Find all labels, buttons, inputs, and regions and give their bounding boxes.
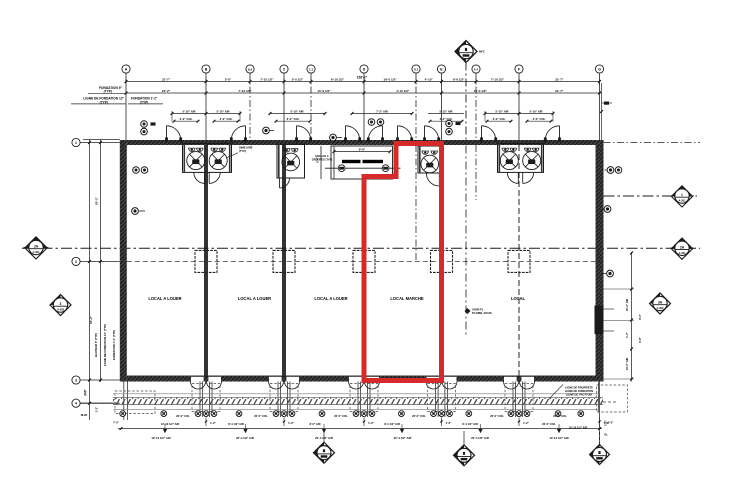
svg-text:1'-2": 1'-2": [604, 419, 608, 426]
svg-text:15'-9 1/2": 15'-9 1/2": [317, 89, 331, 93]
svg-text:12'-10 1/2" AIR: 12'-10 1/2" AIR: [161, 422, 180, 426]
svg-text:4'-10 1/2": 4'-10 1/2": [396, 89, 410, 93]
svg-text:A-301: A-301: [678, 199, 686, 203]
svg-text:A-302: A-302: [57, 308, 65, 312]
svg-text:7'-10 1/2": 7'-10 1/2": [491, 77, 505, 81]
svg-text:6'-10 1/2": 6'-10 1/2": [331, 77, 345, 81]
svg-text:5'-10" AIR: 5'-10" AIR: [290, 109, 303, 113]
svg-text:PLOMB. SOUS.: PLOMB. SOUS.: [472, 311, 493, 315]
svg-text:C: C: [283, 67, 286, 71]
svg-text:3'-2" COL: 3'-2" COL: [180, 117, 193, 121]
svg-text:ORDURES (TYP): ORDURES (TYP): [312, 157, 333, 161]
svg-text:B: B: [205, 67, 208, 71]
svg-text:LOCAL A LOUER: LOCAL A LOUER: [314, 296, 347, 301]
svg-text:3: 3: [75, 378, 77, 382]
svg-text:E.4: E.4: [474, 67, 478, 71]
svg-text:1: 1: [75, 141, 77, 145]
svg-text:20'-4 1/2" A/R: 20'-4 1/2" A/R: [236, 436, 254, 440]
svg-text:5'-0": 5'-0": [225, 77, 232, 81]
svg-text:20'-4 1/2" A/R: 20'-4 1/2" A/R: [471, 436, 489, 440]
svg-text:7'-10 1/2": 7'-10 1/2": [238, 89, 252, 93]
svg-text:9'-2": 9'-2": [638, 313, 642, 320]
svg-text:7'-2" AIR: 7'-2" AIR: [376, 109, 388, 113]
svg-text:3'-2" COL: 3'-2" COL: [493, 117, 506, 121]
svg-text:35'-2": 35'-2": [89, 315, 93, 324]
svg-text:8'-4 1/2" AIR: 8'-4 1/2" AIR: [462, 422, 478, 426]
svg-text:A-301: A-301: [678, 251, 686, 255]
svg-text:HAUTEUR 9' (TYP): HAUTEUR 9' (TYP): [94, 333, 98, 357]
svg-text:3'-2" COL: 3'-2" COL: [220, 117, 233, 121]
svg-text:D: D: [363, 67, 366, 71]
svg-text:LIGNE DE FONDATION: LIGNE DE FONDATION: [565, 389, 593, 393]
svg-text:3'-2" COL: 3'-2" COL: [533, 117, 546, 121]
svg-text:8'-4 1/2" AIR: 8'-4 1/2" AIR: [384, 422, 400, 426]
svg-text:6'-8": 6'-8": [638, 336, 642, 343]
svg-text:10'-2" AIR: 10'-2" AIR: [625, 299, 629, 312]
svg-text:20'-0" COL: 20'-0" COL: [542, 422, 556, 426]
svg-text:8'-0" AIR: 8'-0" AIR: [309, 422, 320, 426]
svg-text:FONDATION 1'-2" (TYP): FONDATION 1'-2" (TYP): [112, 330, 116, 360]
svg-text:20'-0" COL: 20'-0" COL: [412, 414, 426, 418]
svg-text:20'-0" COL: 20'-0" COL: [254, 414, 268, 418]
svg-text:LOCAL A LOUER: LOCAL A LOUER: [238, 296, 271, 301]
svg-text:2: 2: [75, 260, 77, 264]
svg-text:1'-2": 1'-2": [95, 406, 99, 412]
svg-text:(TYP): (TYP): [239, 149, 246, 153]
svg-text:31'-7": 31'-7": [555, 77, 564, 81]
svg-text:LIGNE DE PROPRIETE: LIGNE DE PROPRIETE: [565, 386, 593, 390]
svg-text:D.3: D.3: [414, 67, 419, 71]
svg-text:2A: 2A: [680, 246, 685, 250]
svg-text:NFC: NFC: [479, 50, 485, 54]
svg-text:31'-7": 31'-7": [555, 89, 564, 93]
svg-text:1'-2": 1'-2": [446, 421, 453, 425]
svg-text:20'-0" COL: 20'-0" COL: [490, 414, 504, 418]
svg-text:1'-2": 1'-2": [288, 421, 295, 425]
svg-text:1'-2": 1'-2": [625, 331, 629, 338]
svg-text:10'-2" AIR: 10'-2" AIR: [625, 358, 629, 371]
svg-text:LIGNE DE FONDATION 12" (TYP): LIGNE DE FONDATION 12" (TYP): [103, 324, 107, 366]
svg-text:20'-0" COL: 20'-0" COL: [176, 414, 190, 418]
svg-text:20'-0" COL: 20'-0" COL: [553, 414, 567, 418]
svg-text:C.3: C.3: [309, 67, 314, 71]
svg-text:2'-0": 2'-0": [84, 389, 88, 395]
svg-text:1: 1: [681, 193, 683, 197]
svg-text:20'-4 1/2" A/R: 20'-4 1/2" A/R: [394, 436, 412, 440]
svg-text:8'-4 1/2" AIR: 8'-4 1/2" AIR: [228, 422, 244, 426]
svg-text:9'-6": 9'-6": [359, 147, 366, 151]
svg-text:4'-10": 4'-10": [425, 77, 434, 81]
svg-text:5'-10" AIR: 5'-10" AIR: [216, 109, 229, 113]
svg-text:14'-10 1/2" A/R: 14'-10 1/2" A/R: [549, 436, 568, 440]
svg-text:16'-0 1/2": 16'-0 1/2": [474, 89, 488, 93]
svg-text:3: 3: [60, 302, 62, 306]
svg-text:4: 4: [75, 402, 77, 406]
svg-text:5'-10" AIR: 5'-10" AIR: [495, 109, 508, 113]
svg-text:16'-0 1/2": 16'-0 1/2": [383, 77, 397, 81]
svg-text:5'-10" AIR: 5'-10" AIR: [529, 109, 542, 113]
svg-text:7'-10 1/2": 7'-10 1/2": [260, 77, 274, 81]
svg-text:LOCAL MARCHE: LOCAL MARCHE: [390, 296, 423, 301]
svg-text:OL: OL: [604, 433, 608, 437]
svg-text:ENCLOS A: ENCLOS A: [315, 154, 328, 158]
svg-text:5'-0 1/2": 5'-0 1/2": [292, 77, 304, 81]
svg-text:A: A: [125, 67, 128, 71]
svg-text:1'-2": 1'-2": [523, 421, 530, 425]
svg-text:20'-0" COL: 20'-0" COL: [334, 414, 348, 418]
svg-text:2A: 2A: [34, 245, 39, 249]
svg-text:1'-2": 1'-2": [608, 420, 615, 424]
svg-text:3'-2" COL: 3'-2" COL: [287, 117, 300, 121]
svg-text:35'-2": 35'-2": [95, 196, 99, 205]
svg-text:1'-2": 1'-2": [210, 421, 217, 425]
svg-text:7'-2": 7'-2": [113, 421, 120, 425]
svg-text:158'-2": 158'-2": [357, 75, 368, 79]
svg-text:12'-10 1/2" A/R: 12'-10 1/2" A/R: [151, 436, 170, 440]
svg-text:24'-2": 24'-2": [162, 89, 171, 93]
svg-text:6'-6 1/2": 6'-6 1/2": [453, 77, 465, 81]
svg-text:A-302: A-302: [656, 306, 664, 310]
svg-text:LOCAL: LOCAL: [511, 296, 526, 301]
svg-text:A-301: A-301: [32, 250, 40, 254]
svg-text:1'-2": 1'-2": [368, 421, 375, 425]
svg-text:10'-10 1/2" A/R: 10'-10 1/2" A/R: [569, 425, 588, 429]
svg-text:B.8: B.8: [248, 67, 253, 71]
svg-text:5'-10" AIR: 5'-10" AIR: [439, 109, 452, 113]
svg-text:3A: 3A: [658, 301, 663, 305]
svg-text:BLVD: BLVD: [81, 414, 88, 417]
svg-text:LOCAL A LOUER: LOCAL A LOUER: [148, 296, 181, 301]
svg-text:5'-10" AIR: 5'-10" AIR: [182, 109, 195, 113]
svg-text:G: G: [598, 67, 601, 71]
svg-text:31'-7": 31'-7": [162, 77, 171, 81]
svg-text:LIGNE DE TROTTOIR: LIGNE DE TROTTOIR: [566, 392, 592, 396]
